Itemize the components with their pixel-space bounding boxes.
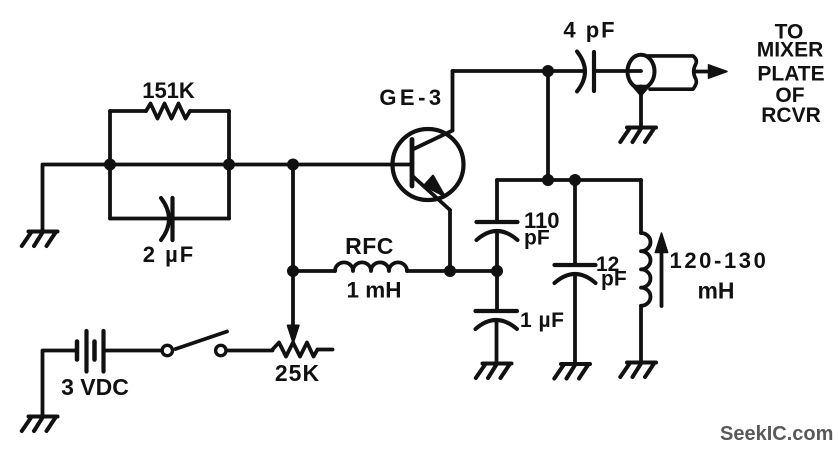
wire: vertical drop to RFC node [291,165,295,272]
wire: battery to switch [104,349,162,353]
svg-text:120-130: 120-130 [670,248,769,273]
svg-text:2 µF: 2 µF [143,242,195,267]
4pF node junction [542,65,554,77]
capacitor 12pF curved plate [555,274,596,283]
svg-text:151K: 151K [142,78,195,103]
emitter junction [444,265,456,277]
inductor 120-130mH coil [641,233,651,306]
ground [620,363,656,378]
wire: tank inductor top lead [639,180,643,233]
switch contact circles [162,345,172,355]
coax plug ground wedge [632,86,650,97]
110pF junction [491,265,503,277]
transistor collector diagonal [413,131,453,150]
svg-text:RCVR: RCVR [761,104,821,127]
plug ground junction [637,85,646,94]
svg-text:MIXER: MIXER [757,39,824,62]
svg-text:SeekIC.com: SeekIC.com [720,423,833,445]
node C junction [287,159,299,171]
tuning arrowhead [655,233,667,253]
wire: box bottom rail right [173,217,229,221]
output arrowhead [709,65,728,78]
capacitor 2uF curved plate [161,198,169,240]
svg-text:RFC: RFC [345,233,394,259]
svg-text:GE-3: GE-3 [379,85,444,110]
capacitor 110pF straight plate [477,220,518,224]
capacitor 4pF curved plate [577,52,585,92]
capacitor 4pF straight plate [592,52,596,91]
node A junction [104,159,116,171]
capacitor 110pF curved plate [477,231,518,240]
wire: box top rail left [110,109,146,113]
wire: vertical from 4pF node down to tank rail [546,71,550,180]
RFC left junction [287,265,299,277]
wire: RFC right lead [407,269,497,273]
svg-text:3 VDC: 3 VDC [61,374,129,400]
wire: 4pF to plug [594,69,641,73]
wire: collector riser [451,71,455,131]
wire: wiper arrow stem to potentiometer [291,271,295,328]
tank rail junction left [542,174,554,186]
output arrow shaft [696,70,710,74]
svg-text:25K: 25K [275,360,320,386]
ground [554,364,590,379]
wire: tank top rail [497,178,641,182]
ground [620,128,656,143]
svg-text:4 pF: 4 pF [563,18,616,43]
transistor emitter arrowhead [425,176,445,196]
wiper arrowhead [288,326,299,343]
coax plug body cylinder [648,56,696,89]
wire: box top rail right [190,109,229,113]
wire: top rail to 4pF [453,69,585,73]
svg-text:mH: mH [697,278,734,304]
svg-text:1 mH: 1 mH [346,278,401,303]
wire: tank inductor bottom lead [639,306,643,361]
tuning arrow shaft [660,252,664,306]
capacitor 2uF straight plate [170,198,174,240]
ground [476,364,512,379]
wire: plug ground stem [639,95,643,126]
wire: box bottom rail left [110,217,166,221]
svg-text:pF: pF [524,227,550,250]
wire: main rail node A to base [110,163,412,167]
transistor Q1 GE-3 circle [393,129,464,200]
capacitor 1uF curved plate [476,320,518,329]
svg-text:pF: pF [601,268,627,291]
transistor base bar [410,140,415,187]
wire: 12pF top lead [573,180,577,265]
wire: 110pF top lead [495,180,499,222]
wire: RFC left lead [293,269,335,273]
potentiometer 25K zigzag [273,343,318,357]
resistor 151K zigzag [146,104,190,119]
ground [22,417,58,432]
node B junction [223,159,235,171]
coax plug face ellipse [628,55,655,89]
wire: 1uF ground lead [495,321,499,363]
capacitor 1uF straight plate [476,309,518,313]
svg-text:1 µF: 1 µF [520,309,564,332]
wire: 12pF ground lead [573,275,577,363]
switch lever [176,332,228,350]
wire: 110pF to 1uF [495,232,499,312]
inductor RFC 1mH coil [335,262,407,271]
transistor emitter diagonal [413,176,451,210]
wire: switch to potentiometer [227,349,273,353]
wire: battery left lead and ground riser [43,351,78,416]
wire: bias box left edge [108,111,112,219]
tank rail junction right [569,174,581,186]
capacitor 12pF straight plate [555,263,596,267]
ground [22,232,58,247]
battery 3VDC plates [75,342,80,360]
wire: potentiometer right tail [318,348,333,352]
wire: box right edge [227,111,231,219]
wire: emitter drop [448,210,452,271]
wire: left ground riser and horizontal to node A [43,165,111,231]
svg-text:PLATE: PLATE [757,63,824,86]
